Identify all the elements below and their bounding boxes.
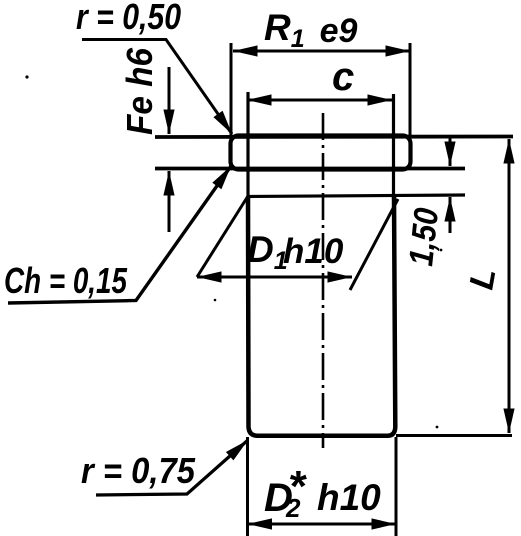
svg-text:D1h10: D1h10 xyxy=(247,229,344,275)
svg-text:c: c xyxy=(332,55,354,99)
svg-text:1,50: 1,50 xyxy=(402,206,446,268)
svg-text:R1e9: R1e9 xyxy=(264,7,358,53)
svg-text:D2*h10: D2*h10 xyxy=(264,462,381,523)
svg-text:Ch = 0,15: Ch = 0,15 xyxy=(4,260,128,301)
svg-text:r = 0,75: r = 0,75 xyxy=(81,450,196,491)
svg-text:L: L xyxy=(462,265,503,292)
svg-text:r = 0,50: r = 0,50 xyxy=(76,0,181,37)
svg-text:Fe h6: Fe h6 xyxy=(119,47,160,135)
